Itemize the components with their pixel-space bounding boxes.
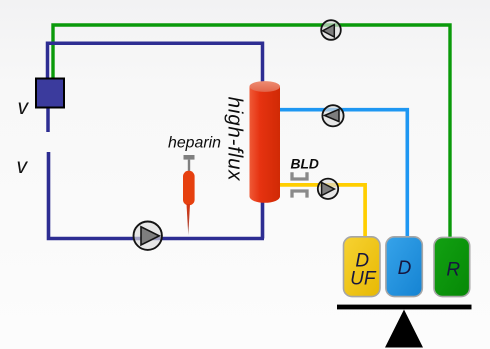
container D (dialysate) — [386, 237, 422, 297]
vascular access square — [36, 79, 64, 108]
svg-text:v: v — [18, 96, 30, 119]
dialyzer body — [250, 87, 281, 203]
wire blue dialysate line — [280, 110, 407, 239]
heparin syringe plunger cap — [184, 155, 195, 160]
wire yellow ultrafiltrate line — [280, 185, 365, 239]
svg-text:high-flux: high-flux — [224, 97, 247, 182]
wire green return line (patient top loop) — [53, 25, 450, 239]
wire navy stub below access square — [46, 106, 50, 132]
BLD clamp bottom jaw — [292, 191, 307, 198]
wire navy lower left vertical and bottom line — [49, 152, 265, 239]
pump P1 on green line — [321, 20, 341, 40]
heparin syringe needle — [187, 204, 191, 236]
svg-text:heparin: heparin — [168, 135, 221, 152]
container D UF (ultrafiltrate) — [344, 237, 381, 297]
pump P4 blood pump on navy bottom line — [134, 222, 162, 250]
svg-text:v: v — [17, 155, 29, 178]
container R (replacement) — [434, 237, 470, 296]
pump P2 on blue line — [322, 105, 343, 126]
BLD clamp top jaw — [292, 172, 307, 179]
svg-text:R: R — [446, 260, 460, 281]
pump P3 on yellow line — [318, 179, 338, 199]
heparin syringe barrel — [183, 171, 195, 206]
wire navy below dialyzer — [261, 198, 265, 239]
dialyzer top ellipse — [250, 81, 281, 92]
balance beam — [337, 305, 472, 310]
heparin syringe plunger stem — [188, 160, 190, 172]
balance fulcrum triangle — [385, 310, 423, 348]
svg-text:UF: UF — [350, 269, 377, 290]
svg-text:D: D — [398, 258, 412, 279]
wire navy arterial top segment to dialyzer — [48, 43, 263, 86]
svg-text:BLD: BLD — [291, 156, 319, 171]
